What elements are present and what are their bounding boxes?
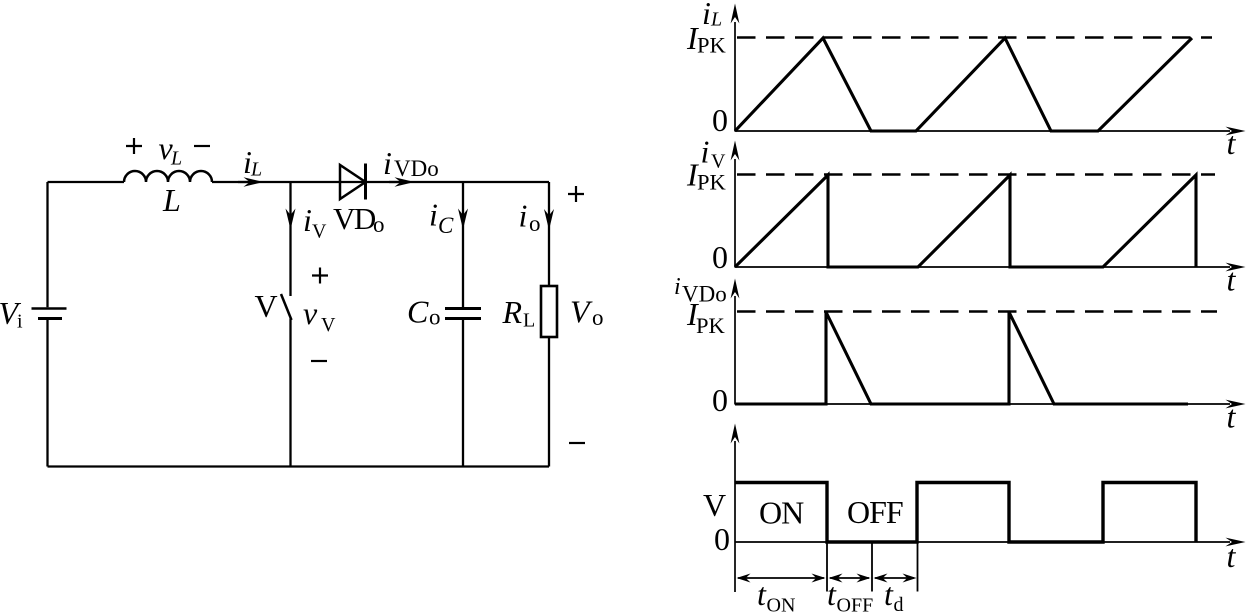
- plot1 y-axis arrowhead: [731, 4, 740, 24]
- wire capacitor branch upper: [462, 182, 464, 307]
- arrow iV down switch branch: [286, 209, 296, 230]
- svg-text:0: 0: [712, 382, 728, 418]
- plot2 x-axis: [735, 266, 1230, 268]
- svg-text:PK: PK: [697, 33, 727, 58]
- plot1 y-axis: [734, 22, 736, 132]
- svg-text:i: i: [429, 197, 438, 233]
- plot2 y-axis arrowhead: [731, 141, 740, 161]
- svg-text:OFF: OFF: [837, 595, 874, 613]
- plot2 y-axis: [734, 159, 736, 268]
- wire bottom: [48, 465, 550, 467]
- arrow iVDo on top wire: [395, 177, 415, 187]
- svg-text:i: i: [702, 0, 711, 31]
- plot4 y-axis arrowhead: [731, 424, 740, 444]
- svg-text:VD: VD: [333, 201, 376, 236]
- plot3 y-axis arrowhead: [731, 279, 740, 299]
- dim arrow td left: [874, 574, 888, 583]
- plot2 iV waveform curve: [735, 175, 1196, 267]
- svg-text:L: L: [523, 310, 535, 332]
- plot4 tick line at tOFF end: [871, 542, 873, 592]
- svg-text:L: L: [170, 148, 182, 170]
- svg-text:d: d: [894, 594, 904, 613]
- svg-text:0: 0: [712, 239, 728, 275]
- wire top left from source to inductor: [48, 181, 125, 183]
- wire load branch upper: [548, 182, 550, 286]
- svg-text:V: V: [570, 294, 593, 330]
- svg-text:V: V: [312, 221, 327, 243]
- dim arrow tON right: [812, 574, 826, 583]
- wire load branch lower: [548, 337, 550, 467]
- arrow iL on top wire: [244, 177, 264, 187]
- capacitor Co bottom plate: [445, 317, 481, 320]
- svg-text:o: o: [529, 211, 541, 236]
- dimension shaft tON: [738, 577, 824, 579]
- wire top from inductor to right branch: [212, 181, 549, 183]
- wire left side lower: [46, 320, 48, 467]
- plot3 iVDo waveform curve: [735, 312, 1188, 404]
- svg-text:OFF: OFF: [847, 494, 903, 530]
- plot4 x-axis arrowhead: [1226, 538, 1246, 547]
- inductor L: [124, 171, 212, 182]
- diode VDo cathode bar: [364, 164, 367, 200]
- svg-text:t: t: [884, 576, 894, 612]
- PLOT 1: iL waveform: [735, 22, 1230, 132]
- plot2 x-axis arrowhead: [1226, 263, 1246, 272]
- minus sign of vL: [194, 145, 210, 147]
- svg-text:t: t: [1227, 262, 1237, 298]
- svg-text:V: V: [255, 288, 278, 324]
- PLOT 4: V gate waveform: [735, 441, 1230, 592]
- svg-text:VDo: VDo: [394, 156, 439, 181]
- svg-text:t: t: [1227, 538, 1237, 574]
- svg-text:V: V: [703, 487, 726, 523]
- minus sign of vV: [311, 360, 327, 362]
- resistor RL box: [541, 286, 557, 337]
- svg-text:i: i: [303, 202, 312, 238]
- dimension shaft td: [875, 577, 914, 579]
- svg-text:ON: ON: [759, 495, 804, 531]
- svg-text:ON: ON: [767, 595, 796, 613]
- svg-text:V: V: [321, 314, 336, 336]
- svg-text:t: t: [1227, 125, 1237, 161]
- svg-text:o: o: [429, 305, 441, 330]
- svg-text:i: i: [383, 145, 392, 181]
- svg-text:R: R: [502, 294, 523, 330]
- wire switch branch lower: [289, 319, 291, 467]
- svg-text:t: t: [757, 576, 767, 612]
- svg-text:C: C: [407, 294, 429, 330]
- wire switch branch upper: [289, 182, 291, 296]
- dim arrow td right: [903, 574, 917, 583]
- plot4 x-axis: [735, 541, 1230, 543]
- arrow io down load branch: [544, 209, 554, 230]
- svg-text:o: o: [592, 305, 604, 330]
- dim arrow tON left: [737, 574, 751, 583]
- plus sign of vV: [312, 268, 328, 284]
- svg-text:t: t: [1227, 399, 1237, 435]
- plot1 iL waveform curve: [735, 38, 1192, 131]
- battery Vi short plate: [38, 317, 62, 320]
- plus sign of Vo: [568, 186, 584, 202]
- svg-text:o: o: [373, 212, 385, 237]
- capacitor Co top plate: [445, 307, 481, 310]
- switch V blade: [281, 294, 292, 320]
- svg-text:PK: PK: [697, 170, 727, 195]
- svg-text:L: L: [250, 159, 262, 181]
- svg-text:i: i: [17, 311, 23, 333]
- plot4 tick line at td end: [917, 542, 919, 592]
- wire left side upper: [46, 182, 48, 307]
- plot4 V waveform curve: [735, 483, 1196, 543]
- dim arrow tOFF left: [829, 574, 843, 583]
- arrow iC down capacitor branch: [458, 209, 468, 230]
- svg-text:PK: PK: [696, 313, 726, 338]
- plot1 x-axis arrowhead: [1226, 127, 1246, 136]
- PLOT 3: iVDo waveform: [735, 296, 1230, 405]
- plot1 x-axis: [735, 130, 1230, 132]
- plot3 x-axis arrowhead: [1226, 400, 1246, 409]
- svg-text:i: i: [519, 198, 528, 234]
- plot3 y-axis: [734, 296, 736, 405]
- plot4 tick line at tON end: [826, 542, 828, 592]
- diode VDo triangle: [340, 165, 366, 199]
- battery Vi long plate: [32, 307, 67, 309]
- wire capacitor branch lower: [462, 320, 464, 467]
- svg-text:L: L: [162, 182, 181, 218]
- dim arrow tOFF right: [857, 574, 871, 583]
- dimension shaft tOFF: [830, 577, 869, 579]
- svg-text:C: C: [438, 213, 454, 238]
- PLOT 2: iV waveform: [735, 159, 1230, 268]
- svg-text:0: 0: [714, 521, 730, 557]
- svg-text:v: v: [303, 295, 318, 331]
- svg-text:i: i: [674, 274, 681, 300]
- svg-text:L: L: [710, 9, 722, 31]
- plot2 dashed IPK level: [737, 173, 1215, 175]
- minus sign of Vo: [569, 442, 585, 444]
- svg-text:t: t: [827, 576, 837, 612]
- svg-text:i: i: [701, 134, 710, 170]
- svg-text:0: 0: [712, 102, 728, 138]
- plus sign of vL: [126, 138, 142, 154]
- plot4 y-axis: [734, 441, 736, 592]
- plot3 dashed IPK level: [737, 310, 1217, 312]
- plot1 dashed IPK level: [737, 36, 1212, 38]
- plot3 x-axis: [735, 403, 1230, 405]
